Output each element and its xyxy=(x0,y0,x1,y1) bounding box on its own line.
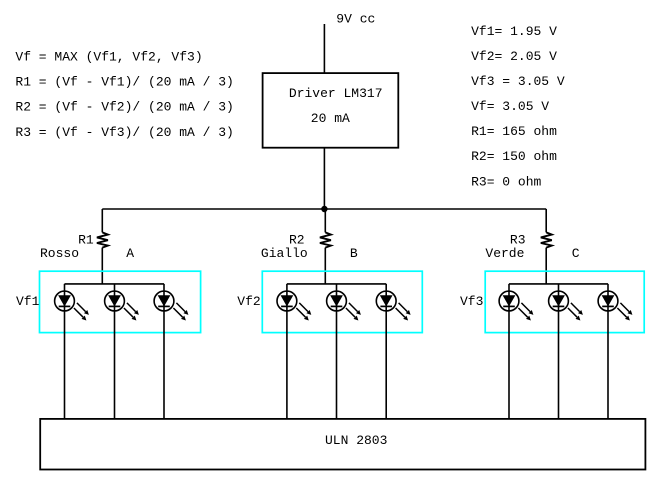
wire LED B2 anode-cathode to ULN xyxy=(336,284,338,419)
svg-text:Vf3 = 3.05 V: Vf3 = 3.05 V xyxy=(471,74,565,89)
ULN 2803 driver block U2 xyxy=(40,419,645,470)
wire 9V supply to driver input xyxy=(323,24,325,73)
wire R2 to LED group B anode bus xyxy=(324,248,326,284)
svg-text:Verde: Verde xyxy=(485,246,524,261)
svg-text:R3= 0 ohm: R3= 0 ohm xyxy=(471,174,541,189)
svg-text:R3 = (Vf - Vf3)/ (20 mA / 3): R3 = (Vf - Vf3)/ (20 mA / 3) xyxy=(15,125,233,140)
svg-text:Rosso: Rosso xyxy=(40,246,79,261)
LED group A outline box xyxy=(40,271,201,332)
svg-text:ULN 2803: ULN 2803 xyxy=(325,433,387,448)
wire LED anode bus group C xyxy=(509,283,608,285)
junction driver output node xyxy=(321,206,327,212)
svg-text:Vf2= 2.05 V: Vf2= 2.05 V xyxy=(471,49,557,64)
wire LED B1 anode-cathode to ULN xyxy=(286,284,288,419)
resistor R1 xyxy=(97,232,108,247)
LED B1 xyxy=(277,291,311,320)
svg-text:R2= 150 ohm: R2= 150 ohm xyxy=(471,149,557,164)
LED C1 xyxy=(499,291,533,320)
wire LED A3 anode-cathode to ULN xyxy=(163,284,165,419)
LED B2 xyxy=(327,291,361,320)
resistor R2 xyxy=(320,232,331,247)
svg-text:R1: R1 xyxy=(78,232,94,247)
wire output bus horizontal xyxy=(102,208,546,210)
svg-text:C: C xyxy=(572,246,580,261)
wire LED C1 anode-cathode to ULN xyxy=(508,284,510,419)
wire LED A1 anode-cathode to ULN xyxy=(64,284,66,419)
wire LED B3 anode-cathode to ULN xyxy=(385,284,387,419)
wire LED C2 anode-cathode to ULN xyxy=(558,284,560,419)
LED C3 xyxy=(598,291,632,320)
svg-text:9V cc: 9V cc xyxy=(336,11,375,26)
svg-text:B: B xyxy=(350,246,358,261)
LED C2 xyxy=(549,291,583,320)
svg-text:R2 = (Vf - Vf2)/ (20 mA / 3): R2 = (Vf - Vf2)/ (20 mA / 3) xyxy=(15,100,233,115)
wire LED anode bus group A xyxy=(65,283,165,285)
LED group C outline box xyxy=(485,271,644,332)
resistor R3 xyxy=(541,232,552,247)
wire R3 to LED group C anode bus xyxy=(545,248,547,284)
svg-text:Vf= 3.05 V: Vf= 3.05 V xyxy=(471,99,549,114)
wire LED anode bus group B xyxy=(287,283,386,285)
svg-text:R1 = (Vf - Vf1)/ (20 mA / 3): R1 = (Vf - Vf1)/ (20 mA / 3) xyxy=(15,75,233,90)
svg-text:20 mA: 20 mA xyxy=(311,111,350,126)
LED group B outline box xyxy=(262,271,422,332)
LED A3 xyxy=(154,291,188,320)
svg-text:A: A xyxy=(126,246,134,261)
wire bus to R1 xyxy=(101,209,103,232)
svg-text:Vf3: Vf3 xyxy=(460,294,483,309)
svg-text:Vf = MAX (Vf1, Vf2, Vf3): Vf = MAX (Vf1, Vf2, Vf3) xyxy=(15,49,202,64)
LED B3 xyxy=(376,291,410,320)
LED A1 xyxy=(55,291,89,320)
driver U1 LM317 current source block xyxy=(263,73,399,148)
formula note block xyxy=(15,49,233,140)
svg-text:Driver LM317: Driver LM317 xyxy=(289,86,383,101)
wire LED C3 anode-cathode to ULN xyxy=(607,284,609,419)
svg-text:Vf2: Vf2 xyxy=(237,294,260,309)
svg-text:R1= 165 ohm: R1= 165 ohm xyxy=(471,124,557,139)
svg-text:Vf1: Vf1 xyxy=(16,294,40,309)
wire bus to R2 xyxy=(324,209,326,232)
value note block xyxy=(471,24,565,189)
wire R1 to LED group A anode bus xyxy=(101,248,103,284)
wire bus to R3 xyxy=(545,209,547,232)
wire LED A2 anode-cathode to ULN xyxy=(114,284,116,419)
wire driver output to bus xyxy=(323,148,325,209)
svg-text:Giallo: Giallo xyxy=(261,246,308,261)
svg-text:Vf1= 1.95 V: Vf1= 1.95 V xyxy=(471,24,557,39)
LED A2 xyxy=(105,291,139,320)
